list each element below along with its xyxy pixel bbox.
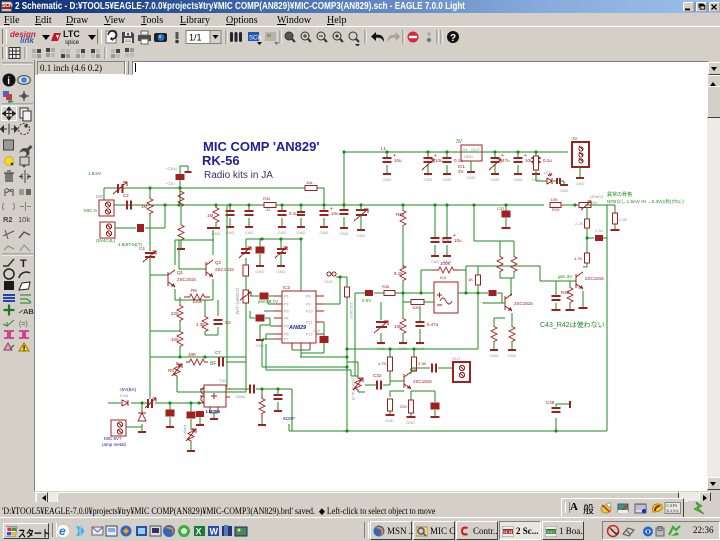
svg-text:10u: 10u [394, 158, 402, 163]
ground bar under C37 [502, 227, 511, 229]
junction comp in [401, 291, 422, 294]
svg-text:P11: P11 [306, 321, 312, 325]
ground under C35 [443, 245, 452, 264]
resistor R30 box [378, 357, 393, 371]
capacitor C39 variable [374, 321, 388, 333]
wire R9 left [179, 297, 181, 300]
wire twin net A [262, 339, 347, 367]
wire out down [477, 293, 479, 349]
ground after LED [560, 181, 569, 193]
svg-text:P1: P1 [284, 295, 289, 299]
wire C30 stem [179, 180, 181, 205]
trimmer R24 volume [186, 428, 196, 442]
wire Q3 drop [474, 205, 514, 256]
wire stub C8 [386, 152, 388, 158]
svg-text:e: e [59, 524, 66, 538]
resistor R44 box LED feed [534, 156, 539, 170]
ground mid column [256, 334, 265, 348]
wire drop 447 [446, 205, 448, 238]
svg-text:SCH: SCH [503, 530, 513, 535]
wire Q2 collector [212, 230, 214, 255]
op-amp IC2 AN829 [274, 285, 324, 350]
ground under C28 [278, 218, 287, 235]
wire R31R38 chain [402, 226, 404, 266]
wire below comp drops [381, 302, 420, 322]
junction bmid rail [345, 347, 415, 350]
svg-text:100K: 100K [192, 299, 203, 304]
svg-text:OUT: OUT [471, 147, 480, 152]
resistor R15 [511, 256, 517, 272]
start button [3, 523, 49, 539]
transistor Q2 [206, 260, 234, 277]
resistor R7 feedback inline [305, 180, 317, 191]
capacitor C13 [532, 158, 553, 163]
svg-text:GND: GND [491, 177, 500, 182]
svg-text:*C30: *C30 [166, 182, 174, 186]
svg-text:GND: GND [508, 353, 517, 358]
wire C16 to IC [269, 295, 282, 297]
ground under C13 [532, 165, 541, 182]
SCH icon [248, 32, 259, 41]
ground under R42 [566, 309, 575, 311]
wire C44 to loop [603, 237, 607, 239]
diode ZD1 zener [138, 410, 146, 432]
svg-text:GND: GND [256, 343, 265, 348]
capacitor C48 [552, 408, 561, 412]
wire branch 615 [607, 205, 615, 213]
trim arrow on C11 [489, 159, 501, 170]
svg-text:X: X [196, 527, 202, 537]
svg-text:C48: C48 [546, 400, 555, 405]
connector SV2 3V supply [572, 136, 589, 167]
capacitor C24 [274, 395, 283, 399]
capacitor C9 [424, 153, 444, 163]
ground under C27 [245, 218, 254, 235]
wire comp input main [355, 293, 384, 376]
svg-text:BRD: BRD [546, 530, 556, 535]
capacitor C11 [491, 153, 511, 163]
wire x347 vertical upper [346, 277, 348, 349]
svg-text:P3: P3 [284, 310, 289, 314]
dots [427, 32, 431, 36]
camera [154, 33, 167, 42]
junction C30 [178, 186, 181, 189]
wire to comp node [226, 361, 246, 363]
wire inv input2 [403, 293, 434, 302]
wire fb top [421, 269, 432, 271]
open [106, 31, 116, 43]
svg-text:R19: R19 [552, 207, 560, 212]
svg-text:C37: C37 [497, 206, 505, 211]
wire R47 down [614, 224, 616, 229]
svg-text:GND: GND [340, 231, 349, 236]
capacitor C30 fat [176, 174, 185, 180]
wire pot bottom link [177, 357, 246, 392]
wire right loop vertical [606, 205, 608, 431]
save [122, 32, 134, 43]
resistor R49 box inline x347 [345, 287, 355, 319]
svg-text:(20mV): (20mV) [590, 194, 604, 199]
svg-text:3V: 3V [572, 136, 578, 141]
wire top rail drop to mid rail [343, 152, 345, 205]
ground bar under C24b [196, 424, 204, 426]
wire comp out [458, 293, 505, 303]
connector X2 [100, 222, 115, 238]
resistor R37 [394, 318, 406, 334]
resistor R1b 1M [207, 208, 219, 223]
svg-text:10K: 10K [412, 305, 419, 310]
undo [371, 32, 384, 42]
wire C18 link [301, 322, 324, 353]
wire inv input [403, 301, 411, 303]
resistor R47 box [613, 213, 618, 224]
svg-text:2SC1815: 2SC1815 [585, 276, 604, 281]
svg-text:GND: GND [383, 177, 392, 182]
capacitor C42 fat [431, 403, 440, 410]
capacitor C31 [340, 210, 349, 214]
svg-text:GND: GND [245, 230, 254, 235]
wire Q5 emitter [582, 291, 584, 308]
capacitor C44 fat [595, 235, 603, 241]
supply bar above Q2 [207, 227, 220, 229]
wire C24 stub [277, 389, 279, 410]
svg-text:1K: 1K [468, 277, 473, 282]
junction bottom rail [345, 429, 557, 432]
svg-text:2.2K: 2.2K [619, 217, 628, 222]
ground under C32 [357, 222, 366, 238]
ground under C43 [552, 309, 561, 311]
ground under C8 [383, 165, 392, 182]
svg-text:GND: GND [424, 177, 433, 182]
wire chain bottom [179, 347, 181, 357]
svg-text:P7: P7 [284, 338, 289, 342]
title bar [0, 0, 720, 13]
wire zener gnd stub [141, 427, 143, 432]
svg-text:2SC1815: 2SC1815 [514, 301, 533, 306]
svg-text:R36: R36 [382, 284, 390, 289]
svg-text:GND: GND [256, 269, 265, 274]
wire Q1 emitter [174, 289, 176, 300]
wire C48 stub [555, 418, 557, 431]
wire lm386 input rail [108, 402, 200, 404]
svg-text:W: W [210, 527, 219, 537]
capacitor C2 [123, 193, 131, 210]
ground bar under zener [138, 431, 146, 433]
capacitor C21 variable [275, 247, 287, 258]
wire C23 stubs [259, 239, 261, 260]
wire trim column [245, 239, 247, 357]
svg-text:C4: C4 [139, 246, 145, 251]
wire R33 down [413, 371, 415, 372]
ground under C26 [226, 218, 235, 235]
resistor R4 [171, 331, 183, 347]
resistor R2a [178, 192, 184, 207]
svg-text:P6: P6 [284, 333, 289, 337]
wire trim tap [250, 295, 259, 297]
wire C21b stubs [190, 403, 192, 428]
capacitor C22 [250, 385, 254, 394]
svg-text:30K: 30K [590, 200, 597, 205]
wire cap stub 249 [248, 205, 250, 211]
wire drop 403 [402, 205, 404, 210]
svg-text:C6: C6 [225, 320, 231, 325]
wire 239 link [246, 238, 301, 240]
junction 239 [260, 237, 302, 240]
capacitor C24b fat [196, 411, 204, 417]
wire main mid rail [114, 204, 544, 206]
svg-text:P5: P5 [284, 325, 289, 329]
ground under C21 [277, 260, 286, 274]
ground under C11 [491, 165, 500, 182]
capacitor C38 fat inline [489, 290, 497, 296]
trimmer R8 gain pot [172, 362, 182, 378]
resistor R2c [178, 225, 184, 240]
svg-text:GND: GND [514, 177, 523, 182]
wire R1b stub [215, 205, 217, 208]
svg-text:GND: GND [357, 233, 366, 238]
ground bar under R24 [187, 450, 195, 452]
svg-text:GND: GND [443, 177, 452, 182]
svg-text:異常の骨格: 異常の骨格 [607, 191, 632, 198]
resistor R19 inline [550, 197, 561, 208]
resistor R46 box [585, 253, 590, 263]
svg-text:250u: 250u [236, 394, 245, 399]
trimmer R12 box [240, 290, 251, 303]
resistor R32b box [388, 399, 393, 411]
wire zener link [141, 403, 143, 427]
redo [387, 32, 400, 42]
ground under C9 [424, 165, 433, 182]
wire twin net B [266, 344, 355, 376]
svg-text:C43_R42は使わない: C43_R42は使わない [540, 320, 605, 329]
ground under C12 [514, 165, 523, 182]
svg-text:CAPS: CAPS [667, 503, 678, 508]
svg-text:Q2: Q2 [215, 260, 222, 265]
wire top input [104, 188, 148, 200]
wire y266 run [466, 266, 540, 270]
wire Q2 base [179, 240, 206, 269]
zoom icons x5 [285, 32, 360, 47]
wire C42 link [411, 391, 435, 416]
svg-text:IC2: IC2 [283, 285, 291, 290]
horizontal scrollbar [35, 492, 709, 502]
resistor R33 box [412, 357, 427, 371]
capacitor C28 [278, 211, 299, 216]
wire bottom rail [289, 424, 607, 431]
svg-text:MIC COMP 'AN829': MIC COMP 'AN829' [203, 139, 319, 154]
svg-text:GND: GND [385, 418, 394, 423]
svg-text:MIC in: MIC in [84, 208, 97, 213]
resistor R17 [491, 326, 497, 342]
svg-text:100K: 100K [440, 261, 451, 266]
svg-text:1M: 1M [141, 204, 148, 209]
svg-text:P9: P9 [306, 303, 311, 307]
resistor R5 [196, 317, 208, 332]
capacitor C4 variable [139, 246, 156, 262]
svg-text:GND: GND [324, 279, 333, 284]
svg-text:3.3K: 3.3K [418, 361, 427, 366]
LTC spice logo [51, 33, 61, 41]
capacitor C27 [245, 211, 254, 215]
help [447, 31, 459, 43]
supply bar beside C30 [185, 171, 192, 173]
svg-text:0.1u: 0.1u [289, 211, 298, 216]
svg-text:47u: 47u [502, 158, 510, 163]
capacitor C4b variable [239, 247, 251, 258]
ground under IC1 [467, 161, 476, 180]
wire drop 435 [434, 205, 436, 238]
wire Q5 base wire [540, 266, 576, 281]
wire R17 top [494, 318, 505, 326]
wire Q3 split [499, 241, 501, 256]
junction dots top rail [342, 150, 537, 153]
svg-text:NFBなし 1.5mV IN →0.3V(1秒)がC(-): NFBなし 1.5mV IN →0.3V(1秒)がC(-) [607, 198, 684, 205]
svg-text:2SC1815: 2SC1815 [349, 302, 354, 319]
svg-text:LED: LED [544, 170, 552, 175]
wire C6 link [205, 300, 218, 335]
ground bar under C24 [274, 410, 282, 412]
wire left vertical mid [149, 216, 151, 251]
svg-text:8ΩSP: 8ΩSP [283, 416, 295, 421]
capacitor C21b fat [187, 412, 196, 419]
svg-text:10K: 10K [551, 197, 558, 202]
ground under R1b [212, 222, 221, 236]
svg-text:9.1K: 9.1K [394, 271, 403, 276]
resistor R14 [497, 256, 503, 272]
ground bar under R23 [258, 424, 266, 426]
script icon [176, 32, 179, 39]
svg-text:BF: BF [210, 361, 216, 367]
canvas [35, 75, 707, 491]
wire cap stub 230 [229, 205, 231, 211]
capacitor C32 variable [354, 209, 368, 221]
svg-text:+5V(BA): +5V(BA) [119, 387, 137, 392]
junction lower rails [345, 355, 348, 368]
resistor R3 [171, 304, 183, 322]
wire R38b down [402, 280, 404, 293]
wire C30 loop [180, 166, 188, 174]
wire out run [256, 388, 292, 390]
svg-text:0.1u: 0.1u [454, 158, 463, 163]
resistor R31 [400, 210, 406, 226]
1/1 combo [186, 31, 210, 44]
wire R24 gnd stub [190, 442, 192, 450]
junction comp out [464, 291, 479, 294]
capacitor C20 fat [166, 410, 175, 417]
wire R34 stubs [410, 397, 412, 416]
svg-text:100: 100 [171, 337, 179, 342]
resistor R1 1M [141, 196, 153, 216]
svg-text:P2: P2 [284, 303, 289, 307]
diode D1 [122, 400, 128, 406]
svg-text:GND: GND [467, 175, 476, 180]
ground under C23 [256, 260, 265, 274]
trimmer R29 [353, 376, 363, 392]
wire varcap stub [360, 205, 362, 222]
wire AN829 bottom pins [292, 350, 310, 357]
wire R45 down [586, 228, 588, 253]
wire cap stub 324 [323, 205, 325, 211]
junction dots mid rail [163, 203, 576, 206]
wire Q4 base link [390, 371, 404, 381]
svg-text:4.7K: 4.7K [574, 256, 583, 261]
wire C20 stubs [169, 403, 171, 426]
wire chain mid [179, 322, 181, 331]
svg-text:15V: 15V [313, 328, 320, 333]
capacitor C34 [431, 238, 452, 243]
svg-text:GND: GND [490, 353, 499, 358]
ground under C29 [297, 218, 306, 235]
tray [602, 521, 720, 540]
resistor R34 box [400, 400, 414, 413]
wire C24b stub [199, 417, 201, 424]
task buttons [364, 522, 369, 538]
wire Q2 emitter [175, 279, 213, 300]
svg-text:R32: R32 [263, 196, 271, 201]
svg-text:GND: GND [576, 181, 585, 186]
ground bar under LM386 [210, 418, 218, 420]
wire mid drop 344 [343, 205, 345, 210]
ground under C3 [320, 218, 329, 235]
wire X2 to node [115, 205, 165, 228]
wire LED gnd link [560, 180, 564, 182]
svg-text:2SC1815: 2SC1815 [215, 267, 234, 272]
resistor R36 box input [382, 284, 395, 296]
status bar [0, 502, 720, 517]
toolbar row 1 [0, 26, 720, 46]
wire branch 13k [204, 300, 206, 317]
resistor R10 [186, 359, 208, 365]
svg-text:22: 22 [266, 207, 271, 212]
wire R2a link [180, 206, 182, 225]
ground bar under R32b [386, 414, 395, 416]
vertical scrollbar [707, 75, 720, 488]
resistor R38b [394, 266, 406, 281]
wire Q1 collector [175, 240, 214, 265]
capacitor C18 fat [320, 336, 329, 343]
svg-text:2SC1815: 2SC1815 [177, 277, 196, 282]
wire R33 stub [413, 349, 415, 357]
svg-text:C7: C7 [215, 350, 221, 355]
svg-text:10u: 10u [454, 238, 462, 243]
wire LED to resistor [553, 180, 558, 182]
IME helper green bolt icon [688, 501, 716, 516]
wire R42 stub [569, 281, 571, 310]
wire fb sides [421, 270, 466, 293]
svg-text:2.2K: 2.2K [575, 221, 584, 226]
svg-text:1.5mV: 1.5mV [88, 171, 101, 176]
svg-text:C2: C2 [123, 193, 129, 198]
svg-text:GND: GND [277, 269, 286, 274]
wire R23 stub [261, 389, 263, 424]
svg-text:GND: GND [297, 230, 306, 235]
wire lm386 out [230, 388, 250, 390]
svg-text:OUT: OUT [452, 356, 461, 361]
resistor R35 box [411, 300, 424, 311]
ground under Q5 [579, 307, 588, 309]
ground bar under R2c [177, 248, 185, 250]
svg-text:0.1u: 0.1u [543, 158, 552, 163]
capacitor C29 [297, 212, 305, 215]
svg-text:2SC1815: 2SC1815 [413, 379, 432, 384]
wire stub C13 [535, 152, 537, 158]
junction 340-277 [338, 275, 341, 278]
wire C17 stubs [250, 311, 270, 334]
svg-text:KANA: KANA [667, 509, 680, 514]
wire out to bottom rail [291, 389, 293, 431]
wire Q1 base [150, 270, 168, 275]
ground under R17 [490, 342, 499, 358]
